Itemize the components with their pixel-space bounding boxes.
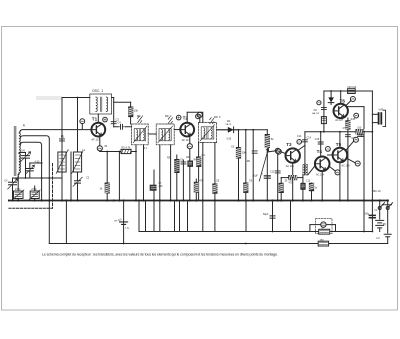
resistor AGC upper (197, 157, 201, 166)
svg-text:10k: 10k (242, 151, 247, 155)
svg-text:H.P: H.P (379, 107, 384, 111)
svg-text:C20 100: C20 100 (347, 86, 357, 89)
thermistor box A51 (321, 117, 326, 124)
terminal circle near C14 (297, 140, 302, 145)
svg-text:Le schema complet du recepteur: Le schema complet du recepteur : les tra… (42, 253, 278, 257)
resistor R14 (309, 183, 313, 190)
wire decoupling leg (153, 170, 155, 201)
svg-text:CV: CV (4, 179, 8, 182)
resistor R7 (194, 182, 198, 192)
wire switch coupling dashed (382, 204, 391, 206)
volume potentiometer P1 (265, 135, 269, 148)
wire common row y178 (13, 177, 63, 179)
ground bus (main chassis line) (9, 200, 388, 202)
capacitor C20 feedback (348, 89, 356, 94)
wire detector leg 3 (252, 130, 254, 201)
wire R2 row (100, 151, 121, 153)
wire top feedback rail (324, 90, 373, 92)
wire feedback corner down (323, 91, 325, 132)
IF transformer MF3 (198, 122, 216, 142)
wire bus2 risers (138, 201, 140, 232)
svg-text:100µ: 100µ (364, 212, 370, 215)
capacitor C14 (302, 140, 307, 142)
capacitor C7 on decoupling leg (150, 185, 156, 190)
wire T1 emitter below circle (99, 150, 101, 153)
svg-text:C18: C18 (358, 135, 363, 138)
wire T5 emitter (339, 162, 341, 200)
wire T5 collector up (339, 132, 341, 148)
svg-text:T2: T2 (183, 115, 189, 120)
wire T3 emitter (292, 163, 294, 201)
resistor R8 (236, 148, 240, 159)
wire MF1 to MF2 (148, 133, 156, 135)
terminal circle T4 emitter (335, 170, 340, 175)
svg-text:Int.: Int. (374, 209, 378, 212)
terminal circle near D2 (317, 101, 321, 105)
diode D2 (328, 97, 334, 102)
tuning gang section CV1a (14, 191, 24, 199)
wire coil mid leg (70, 152, 72, 201)
terminal circle T3 base (276, 149, 281, 154)
svg-text:AC 184: AC 184 (316, 173, 325, 176)
wire D2 leg (330, 91, 332, 97)
capacitor C3 (111, 122, 116, 124)
resistor R5 (175, 160, 179, 173)
transistor T1 (91, 123, 105, 137)
svg-text:220: 220 (186, 156, 191, 159)
wire MF1 right leg (143, 145, 145, 201)
antenna winding upper (19, 133, 20, 153)
terminal circle T5 emitter (355, 161, 360, 166)
svg-text:CA1: CA1 (21, 150, 26, 153)
IF transformer MF2 (156, 124, 174, 145)
wire MF3 left leg (202, 143, 204, 201)
transistor T5 (333, 148, 348, 163)
wire bypass leg a (176, 155, 178, 201)
svg-text:50µF: 50µF (263, 213, 269, 216)
terminal circle at pot (275, 148, 280, 153)
node dots on rails (77, 97, 79, 99)
wire osc coil leg (61, 98, 63, 201)
terminal circle below T6 (354, 113, 359, 118)
wire T6 right to speaker column (348, 106, 365, 108)
capacitor C6 (181, 162, 186, 164)
svg-text:0,05: 0,05 (227, 137, 232, 140)
electrolytic 100uF (369, 215, 375, 217)
trimmer capacitor C2 (75, 172, 81, 201)
resistor 150 on bus3 (318, 241, 328, 246)
wire osc box right to C3 leg (112, 97, 114, 99)
svg-text:C13: C13 (306, 180, 311, 183)
tuning gang section CV1b (30, 191, 39, 199)
switch contact 1 (378, 207, 381, 210)
wire T3 collector diag (298, 145, 305, 150)
switch contact 2 (386, 207, 389, 210)
svg-text:15k: 15k (134, 109, 139, 113)
wire speaker stub bottom (372, 122, 377, 124)
variable capacitor CV1 (9, 178, 17, 201)
svg-text:C14: C14 (297, 135, 302, 138)
wire T1 emitter (99, 137, 101, 146)
wire bus1-to-bus3 vertical (65, 201, 67, 244)
antenna winding lower (19, 153, 20, 174)
svg-text:OA 79: OA 79 (225, 123, 232, 126)
svg-text:8Ω 10: 8Ω 10 (373, 189, 381, 193)
wire AGC line vertical (48, 139, 50, 244)
wire volume pot leg (266, 130, 268, 201)
capacitor C9 on AGC column (252, 151, 257, 153)
wire R1 feed (114, 101, 131, 103)
svg-text:270p: 270p (31, 188, 37, 191)
ferrite rod antenna core (14, 126, 17, 176)
scattered value labels (4, 118, 378, 212)
svg-text:9V: 9V (383, 222, 387, 226)
battery 9V (376, 220, 384, 228)
resistor R19 on output rail (356, 130, 364, 134)
wire battery column (123, 201, 125, 244)
emitter terminal circle T1 (97, 146, 102, 151)
terminal circle near T1 base (80, 119, 85, 124)
capacitor C18 (358, 135, 364, 137)
svg-text:AC 187: AC 187 (335, 119, 344, 122)
trimmer capacitor CA2 (26, 163, 33, 178)
wire plain leg (118, 152, 120, 201)
svg-text:R18: R18 (351, 118, 356, 121)
wire osc feed top (62, 97, 90, 99)
wire switch leg 1 (379, 201, 381, 220)
wire C3 branch (113, 98, 115, 127)
wire T4 emitter (321, 171, 323, 200)
svg-text:4-20: 4-20 (35, 161, 40, 164)
resistor R15 (301, 183, 305, 189)
resistor R1 (129, 107, 133, 117)
capacitor C15 (318, 142, 323, 144)
wire MF2 left leg (159, 145, 161, 201)
wire R13 column (280, 178, 282, 201)
link box on bus2 (319, 229, 330, 234)
svg-text:MF 3: MF 3 (214, 115, 221, 119)
wire T2 emitter (189, 136, 191, 143)
wire MF1 left leg (135, 145, 137, 201)
wire antenna tap third (20, 142, 41, 200)
wire detector line (217, 129, 268, 131)
svg-text:AA 119: AA 119 (312, 112, 320, 115)
wire C14 column / driver feed (304, 132, 306, 164)
loudspeaker HP (378, 112, 380, 124)
svg-text:D1: D1 (227, 119, 231, 123)
oscillator padding coil L1 (adjustable) (58, 152, 66, 172)
wire C12 column (277, 154, 279, 200)
svg-text:C1: C1 (61, 135, 65, 139)
wire emitter resistor leg (106, 152, 108, 201)
wire T6 emitter column (347, 118, 349, 201)
wire T6 collector (340, 91, 342, 104)
svg-text:MF 2: MF 2 (165, 114, 172, 118)
svg-text:T5: T5 (336, 142, 342, 147)
wire antenna tap to AGC vertical (20, 136, 49, 139)
transistor T4 (315, 157, 330, 172)
svg-text:100: 100 (357, 127, 362, 130)
wire output column (371, 91, 373, 232)
wire R12 row (281, 177, 289, 179)
resistor R12 (289, 176, 297, 180)
faint pencil smudge top-left (36, 96, 62, 100)
svg-text:C15: C15 (315, 138, 320, 141)
transistor T2 (180, 123, 194, 137)
capacitor C17 (345, 135, 350, 137)
battery left (Pile) (120, 222, 128, 225)
svg-text:T3: T3 (286, 142, 292, 147)
svg-text:T6: T6 (340, 98, 346, 103)
wire switch leg 2 (387, 201, 389, 234)
supply bus 3 (battery return) (49, 243, 387, 245)
svg-text:5,6µ: 5,6µ (125, 227, 130, 229)
wire antenna to T1 base (20, 130, 92, 133)
svg-text:270p: 270p (15, 188, 21, 191)
transistor T6 (334, 104, 348, 118)
wire AGC resistor chain (198, 143, 200, 201)
svg-text:AF 117: AF 117 (91, 138, 100, 142)
resistor R6 (188, 161, 193, 166)
emitter terminal circle T2 (187, 144, 192, 149)
wire pot wiper to terminal (267, 151, 275, 152)
resistor R18 below T6 (346, 121, 350, 129)
meter jack dashed enclosure (316, 219, 332, 234)
wire CA2 link (30, 162, 42, 164)
AGC terminal circle (197, 112, 202, 117)
wire R14 leg (311, 183, 313, 201)
wire R1 vertical (130, 102, 132, 124)
wire speaker column (363, 107, 365, 232)
wire T1 collector to osc box (97, 114, 99, 123)
wire output stage rail (305, 131, 373, 133)
svg-text:470: 470 (289, 182, 294, 185)
trimmer capacitor CA1 (20, 153, 30, 179)
meter jack circle (321, 222, 326, 227)
terminal circle T5 collector (353, 137, 358, 142)
wire tuning gang coupling dashed (9, 207, 53, 209)
pot wiper arrow (259, 149, 268, 182)
node dots on detector line (238, 129, 240, 131)
svg-text:AF 117: AF 117 (182, 138, 191, 142)
resistor R2 (121, 149, 131, 153)
resistor on MF3 right leg (213, 184, 217, 193)
oscillator coil L2 (adjustable) (73, 152, 81, 172)
wire detector leg 2 (245, 130, 247, 201)
wire T4 to T5 link (328, 154, 333, 156)
wire T2 collector up (186, 112, 188, 122)
svg-text:T4: T4 (317, 149, 323, 154)
svg-text:C14: C14 (307, 137, 312, 140)
wire T3 base (281, 152, 285, 154)
wire antenna tap lower (20, 152, 26, 154)
svg-text:AC 184: AC 184 (342, 164, 351, 167)
svg-text:MF 1: MF 1 (137, 114, 144, 118)
wire C4 link to MF1 (114, 126, 132, 128)
svg-text:100: 100 (158, 185, 163, 188)
svg-text:C17: C17 (351, 137, 356, 140)
capacitor on feedback column (321, 108, 326, 110)
resistor R3 (105, 183, 109, 193)
resistor R9 (244, 183, 248, 192)
transistor T3 (286, 148, 300, 162)
supply bus 2 (139, 231, 372, 233)
driver transformer TR1 (303, 165, 304, 175)
wire MF2 right leg (170, 145, 172, 201)
capacitor C4 near T1 (121, 124, 123, 129)
electrolytic C10 on pot column (264, 176, 270, 178)
wire T2 collector to MF3 (187, 112, 203, 122)
capacitor C1 (60, 139, 65, 141)
wire detector load leg (238, 130, 240, 201)
svg-text:R2 4,7k: R2 4,7k (122, 146, 132, 150)
IF transformer MF1 (132, 124, 149, 145)
svg-text:150: 150 (320, 239, 325, 242)
wire second coil leg (77, 98, 79, 153)
wire MF3 right leg (214, 143, 216, 201)
wire driver primary leg (302, 175, 304, 201)
wire T2 base (174, 129, 180, 131)
diode D1 (228, 127, 234, 133)
oscillator coil box OSC.1 (90, 94, 112, 114)
svg-text:AC 125: AC 125 (286, 165, 295, 168)
wire jack stubs (310, 224, 321, 226)
capacitor C12 (275, 171, 280, 173)
wire AGC filter leg (195, 179, 197, 201)
svg-text:10µF: 10µF (252, 174, 258, 177)
wire bypass leg b (182, 160, 184, 201)
electrolytic 50uF on riser (270, 216, 275, 218)
svg-text:C12: C12 (270, 170, 275, 173)
fuse contact plates right (384, 234, 391, 237)
wire speaker stub top (372, 113, 377, 115)
svg-text:OSC. 1: OSC. 1 (92, 89, 103, 93)
wire C15 column (320, 132, 322, 157)
wire driver secondary to T4 base (308, 166, 315, 175)
terminal circle T6 (350, 97, 355, 102)
resistor R13 (279, 183, 283, 192)
svg-text:T1: T1 (92, 116, 98, 121)
wire winding bottom to gang (17, 174, 20, 178)
